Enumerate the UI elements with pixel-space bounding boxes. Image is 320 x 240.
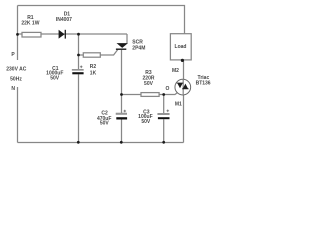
node junction D1 cathode / C1 top (77, 33, 80, 36)
wire SCR cathode vertical (121, 50, 123, 113)
load box (170, 34, 191, 60)
resistor R1 (22, 32, 41, 37)
wire bottom rail (18, 142, 184, 144)
wire P terminal rail (left vertical) (17, 6, 19, 61)
svg-text:BT136: BT136 (196, 80, 211, 86)
svg-text:22K 1W: 22K 1W (21, 21, 39, 27)
svg-text:M2: M2 (172, 68, 179, 74)
wire gate row through R3 to triac gate (122, 93, 178, 95)
wire top rail from P corner to Load (18, 6, 185, 34)
resistor R2 (83, 53, 100, 57)
svg-text:R2: R2 (90, 64, 97, 70)
svg-text:50V: 50V (50, 75, 60, 81)
node junction C2 bottom on bottom rail (120, 141, 123, 144)
wire triac M1 lead to bottom rail (183, 95, 185, 143)
label C3 value 100uF 50V (138, 110, 152, 125)
svg-text:1K: 1K (90, 70, 97, 76)
wire R2 gate branch (79, 49, 119, 55)
svg-text:IN4007: IN4007 (56, 17, 72, 23)
resistor R3 (141, 93, 159, 97)
wire R1-D1 row (18, 33, 128, 35)
label R3 value 220R 50V (143, 70, 155, 87)
triac BT136 (175, 79, 191, 95)
node junction P rail / R1 row (16, 33, 19, 36)
wire Load bottom to triac M2 (183, 60, 185, 79)
svg-text:N: N (11, 86, 15, 92)
label C2 value 470uF 50V (97, 110, 111, 126)
node junction C1 bottom on bottom rail (77, 141, 80, 144)
node junction SCR cathode / C2 / R3 row (120, 93, 123, 96)
label C1 value 1000uF 50V (46, 66, 63, 81)
node junction C3 bottom on bottom rail (162, 141, 165, 144)
node junction O (R3 / C3 / triac gate) (162, 93, 165, 96)
wire C2 lower lead (121, 120, 123, 143)
wire SCR anode drop (126, 34, 128, 43)
capacitor C3 polarized (158, 110, 170, 120)
svg-text:50V: 50V (144, 81, 154, 87)
label SCR value 2P4M (132, 40, 145, 52)
SCR 2P4M (thyristor) (116, 43, 128, 49)
capacitor C2 polarized (116, 110, 127, 120)
svg-text:Load: Load (175, 44, 187, 50)
wire N terminal rail (left vertical lower) (17, 87, 19, 143)
node junction C1 lead / R2 tap (77, 54, 80, 57)
svg-text:50V: 50V (100, 121, 110, 127)
svg-text:50V: 50V (141, 119, 151, 125)
svg-text:M1: M1 (175, 102, 182, 108)
capacitor C1 polarized (72, 66, 84, 75)
svg-text:2P4M: 2P4M (132, 45, 145, 51)
node junction Load bottom terminal (181, 59, 184, 62)
label R2 value 1K (90, 64, 97, 76)
diode D1 (59, 30, 66, 39)
label Triac BT136 (196, 75, 211, 86)
wire C1 branch vertical (78, 34, 80, 143)
svg-text:50Hz: 50Hz (10, 77, 22, 83)
svg-text:O: O (166, 86, 170, 92)
wire C3 vertical (163, 95, 165, 143)
svg-text:230V AC: 230V AC (6, 67, 26, 73)
